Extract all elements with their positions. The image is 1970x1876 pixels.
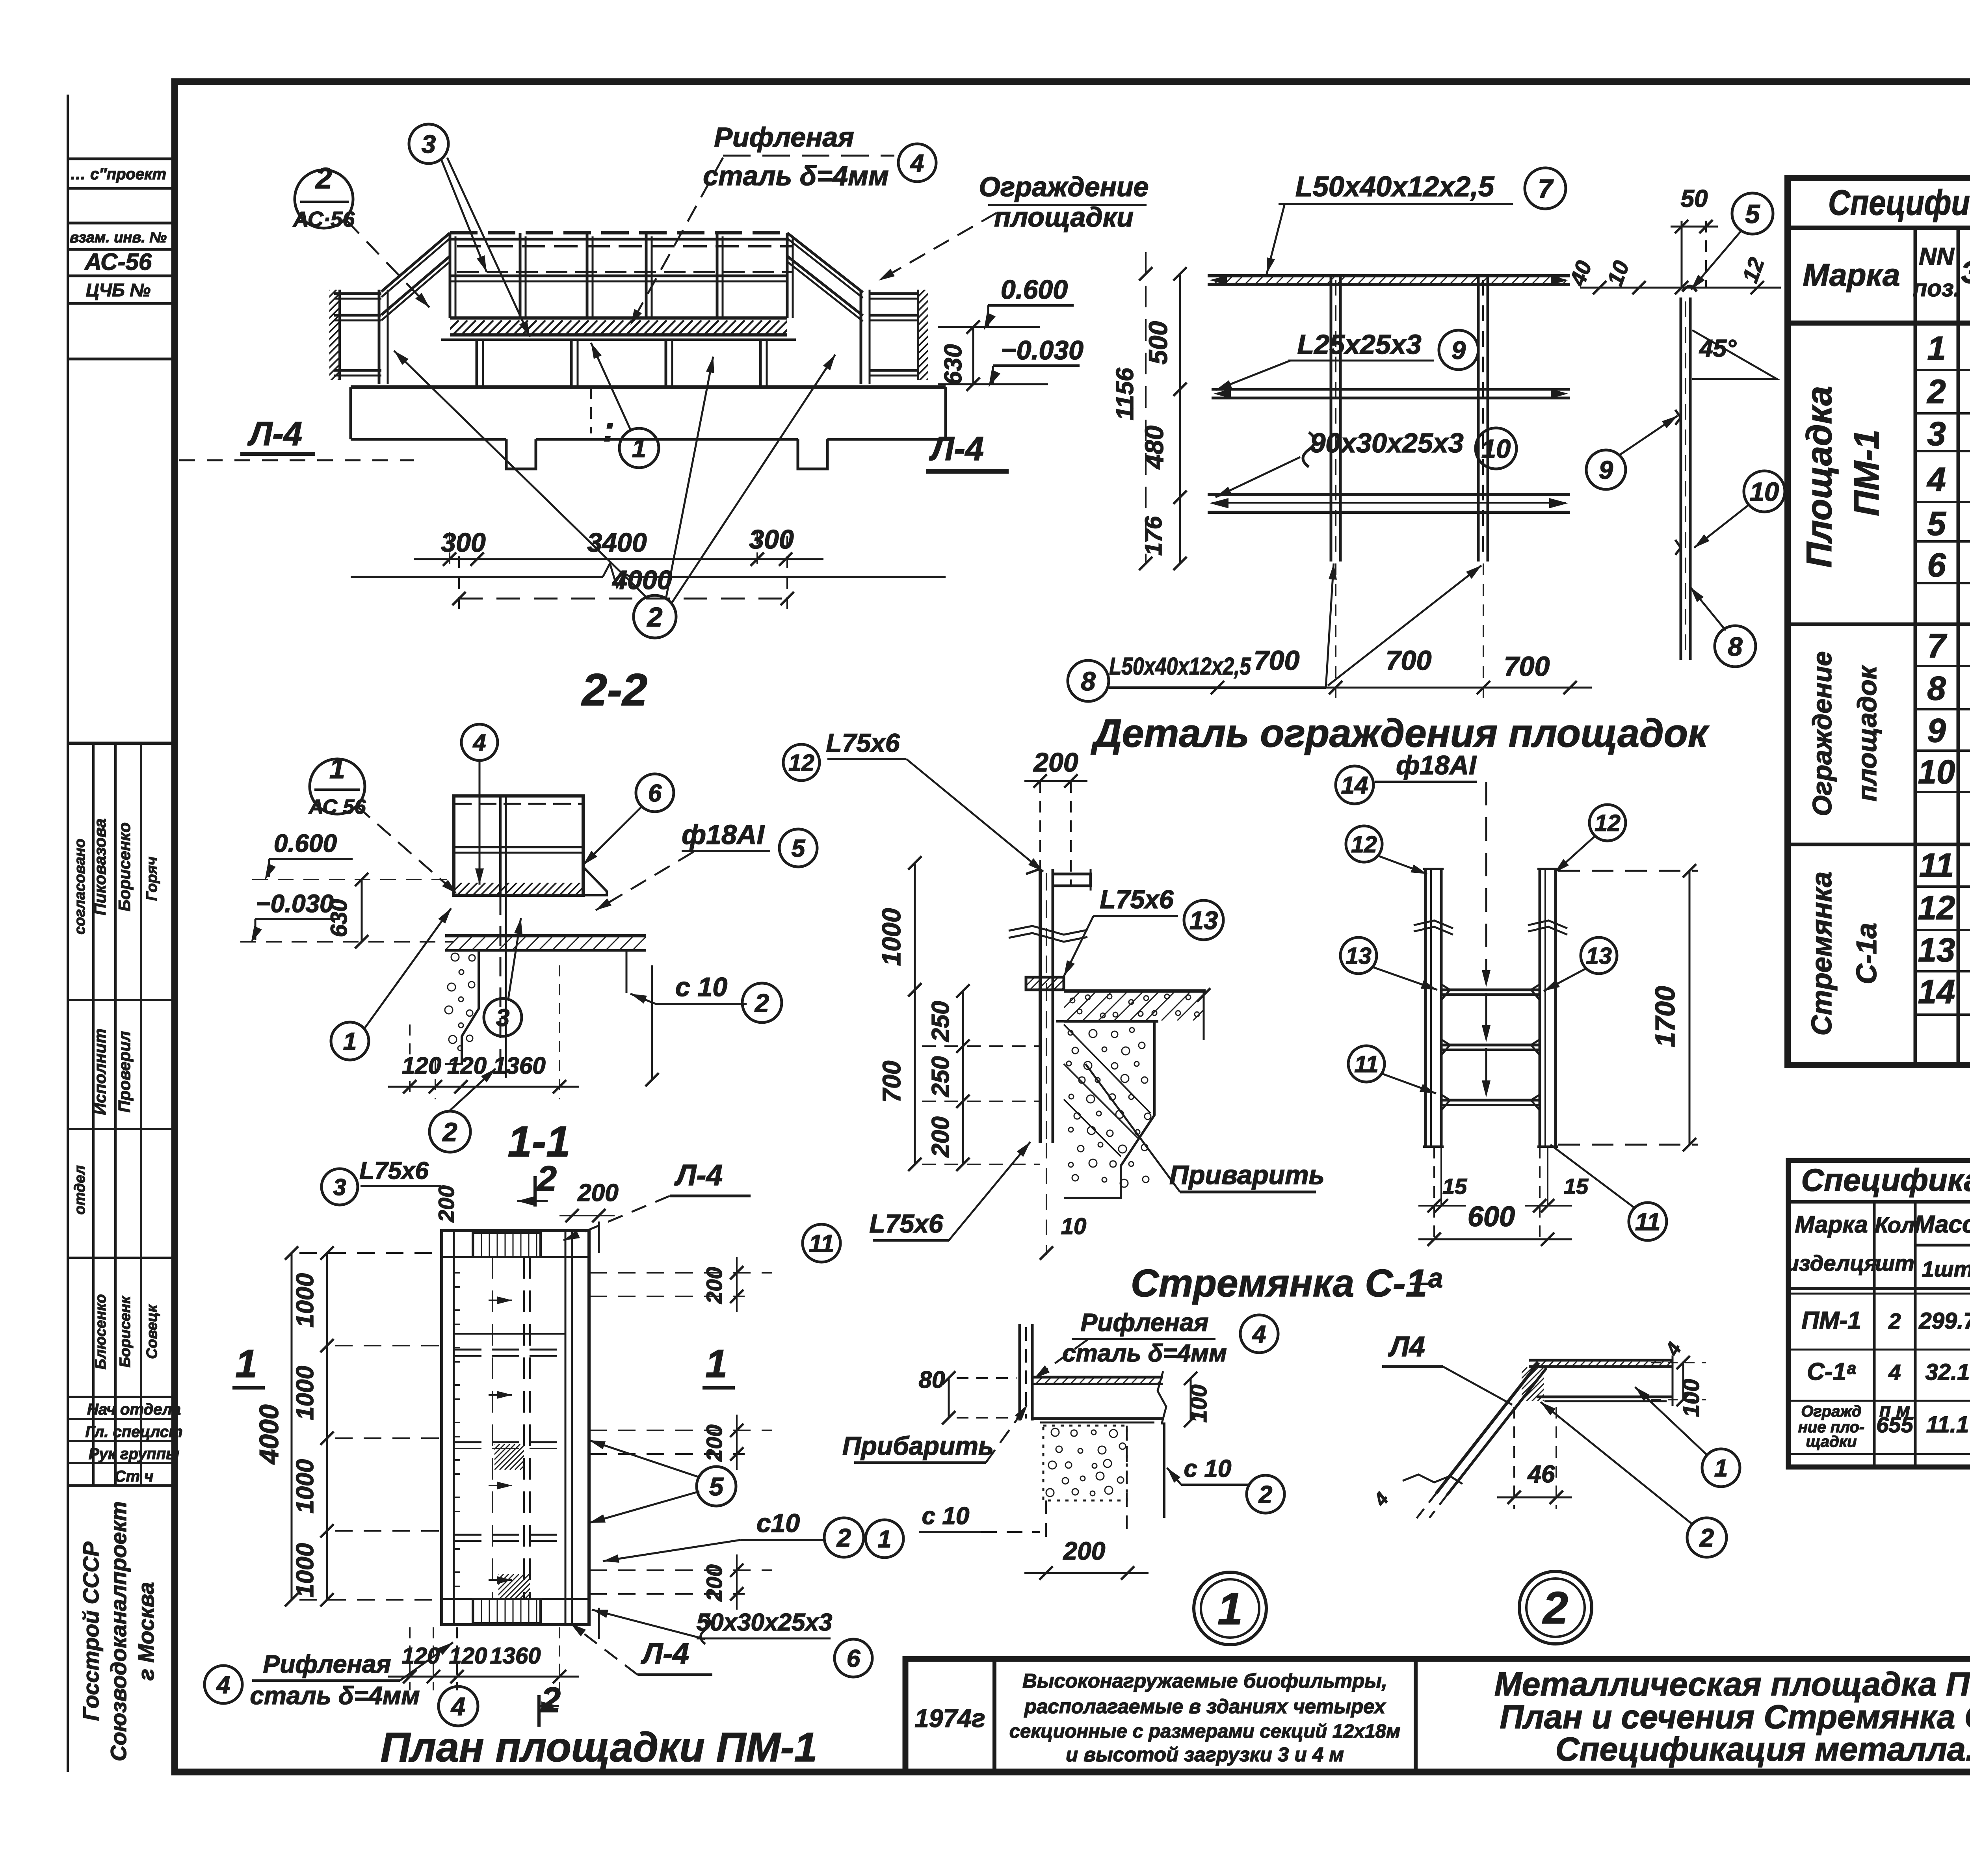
svg-text:Деталь ограждения площадок: Деталь ограждения площадок — [1090, 711, 1709, 755]
svg-text:щадки: щадки — [1806, 1433, 1857, 1450]
svg-text:0.600: 0.600 — [1001, 275, 1068, 305]
svg-text:Рифленая: Рифленая — [714, 122, 854, 152]
svg-text:176: 176 — [1140, 516, 1167, 556]
svg-text:2: 2 — [836, 1523, 851, 1552]
svg-text:АС-56: АС-56 — [84, 249, 152, 275]
svg-text:АС·56: АС·56 — [292, 207, 355, 231]
svg-text:11: 11 — [809, 1230, 834, 1257]
svg-text:600: 600 — [1468, 1201, 1515, 1233]
svg-text:п м: п м — [1879, 1400, 1910, 1421]
svg-text:200: 200 — [927, 1116, 954, 1157]
svg-text:5: 5 — [1745, 199, 1760, 229]
svg-text:4000: 4000 — [254, 1404, 284, 1465]
svg-text:L75x6: L75x6 — [359, 1157, 429, 1184]
svg-text:4000: 4000 — [611, 565, 672, 595]
svg-text:630: 630 — [326, 899, 352, 937]
svg-text:1: 1 — [1927, 330, 1946, 367]
svg-text:10: 10 — [1481, 434, 1511, 464]
svg-text:700: 700 — [1254, 645, 1300, 676]
svg-text:L75x6: L75x6 — [1100, 885, 1174, 914]
svg-text:Ограждение: Ограждение — [1807, 651, 1837, 816]
svg-text:120: 120 — [449, 1643, 487, 1669]
svg-text:с10: с10 — [756, 1508, 800, 1538]
svg-text:1360: 1360 — [490, 1643, 541, 1669]
svg-text:3400: 3400 — [587, 528, 647, 558]
svg-text:12: 12 — [1737, 254, 1769, 286]
svg-text:120: 120 — [447, 1052, 487, 1079]
svg-text:1974г: 1974г — [914, 1704, 985, 1733]
svg-text:Гл. спецлст: Гл. спецлст — [85, 1423, 182, 1441]
svg-text:90x30x25x3: 90x30x25x3 — [1310, 428, 1463, 458]
svg-text:11: 11 — [1919, 847, 1954, 884]
svg-text:Нач отдела: Нач отдела — [87, 1401, 181, 1418]
svg-text:3: 3 — [496, 1004, 509, 1032]
svg-text:32.1: 32.1 — [1925, 1359, 1970, 1385]
svg-text:6: 6 — [1927, 547, 1946, 584]
svg-text:4: 4 — [910, 150, 924, 177]
svg-text:шт: шт — [1875, 1251, 1914, 1275]
svg-text:1000: 1000 — [292, 1366, 319, 1420]
svg-text:4: 4 — [1888, 1360, 1901, 1385]
svg-text:299.7: 299.7 — [1918, 1308, 1970, 1334]
svg-text:сталь δ=4мм: сталь δ=4мм — [250, 1681, 420, 1710]
svg-text:3: 3 — [333, 1174, 346, 1200]
svg-text:Л-4: Л-4 — [674, 1158, 723, 1192]
svg-text:13: 13 — [1346, 943, 1372, 969]
svg-text:300: 300 — [441, 528, 486, 558]
svg-text:и высотой загрузки 3 и 4 м: и высотой загрузки 3 и 4 м — [1066, 1743, 1344, 1766]
svg-text:площадки: площадки — [994, 202, 1134, 232]
svg-text:поз.: поз. — [1913, 275, 1961, 301]
svg-text:200: 200 — [702, 1564, 727, 1601]
svg-text:700: 700 — [1386, 645, 1432, 676]
svg-text:8: 8 — [1927, 670, 1946, 707]
svg-text:5: 5 — [1927, 505, 1946, 543]
svg-text:С-1а: С-1а — [1851, 923, 1883, 984]
svg-text:ПМ-1: ПМ-1 — [1847, 429, 1886, 516]
svg-text:План площадки ПМ-1: План площадки ПМ-1 — [381, 1724, 817, 1770]
svg-text:Л4: Л4 — [1388, 1331, 1425, 1363]
svg-text:14: 14 — [1341, 772, 1368, 799]
svg-text:1: 1 — [1714, 1455, 1728, 1482]
svg-text:9: 9 — [1927, 712, 1946, 749]
svg-text:1: 1 — [329, 753, 345, 785]
svg-text:630: 630 — [940, 344, 967, 385]
svg-text:46: 46 — [1527, 1461, 1555, 1488]
svg-text:−0.030: −0.030 — [1001, 335, 1083, 365]
svg-text:45°: 45° — [1699, 335, 1737, 362]
svg-text:10: 10 — [1602, 257, 1634, 289]
svg-text:2: 2 — [442, 1117, 457, 1147]
svg-text:3: 3 — [1927, 415, 1946, 453]
svg-text:с 10: с 10 — [675, 972, 728, 1002]
svg-text:1шт: 1шт — [1922, 1257, 1970, 1281]
svg-text:Рифленая: Рифленая — [1081, 1308, 1209, 1337]
svg-text:1: 1 — [632, 434, 646, 463]
svg-text:2: 2 — [1699, 1523, 1714, 1552]
svg-text:2: 2 — [647, 602, 663, 632]
svg-text:располагаемые в зданиях четыре: располагаемые в зданиях четырех — [1024, 1695, 1386, 1718]
svg-text:Борисенко: Борисенко — [115, 822, 134, 911]
svg-text:Спецификация металла.: Спецификация металла. — [1556, 1731, 1970, 1768]
svg-text:4: 4 — [473, 730, 486, 756]
svg-text:Пиковазова: Пиковазова — [91, 818, 109, 915]
svg-text:L25x25x3: L25x25x3 — [1297, 329, 1421, 360]
svg-text:1: 1 — [1217, 1584, 1243, 1634]
svg-text:200: 200 — [434, 1185, 459, 1222]
svg-text:Эскиз или сечение: Эскиз или сечение — [1961, 255, 1970, 290]
svg-text:6: 6 — [648, 780, 662, 807]
svg-text:4: 4 — [1252, 1321, 1266, 1348]
svg-text:1700: 1700 — [1650, 986, 1680, 1047]
svg-text:2: 2 — [540, 1681, 561, 1720]
svg-text:ф18АI: ф18АI — [1396, 750, 1477, 780]
svg-text:1: 1 — [878, 1526, 891, 1553]
svg-text:1000: 1000 — [877, 908, 906, 966]
svg-text:1156: 1156 — [1111, 368, 1139, 420]
svg-text:Ст ч: Ст ч — [115, 1468, 154, 1485]
svg-text:2: 2 — [1258, 1481, 1272, 1508]
svg-text:Исполнит: Исполнит — [91, 1028, 109, 1115]
svg-text:500: 500 — [1143, 321, 1173, 364]
svg-text:50: 50 — [1681, 185, 1708, 212]
svg-text:Госстрой СССР: Госстрой СССР — [78, 1541, 103, 1721]
svg-text:согласовано: согласовано — [72, 839, 88, 935]
svg-text:15: 15 — [1442, 1174, 1467, 1199]
svg-text:7: 7 — [1538, 174, 1554, 204]
svg-text:1-1: 1-1 — [508, 1117, 571, 1166]
svg-text:Л-4: Л-4 — [641, 1637, 689, 1670]
svg-text:2: 2 — [1926, 373, 1946, 411]
svg-text:12: 12 — [1595, 810, 1621, 836]
svg-text:отдел: отдел — [72, 1165, 88, 1214]
svg-text:Прибарить: Прибарить — [842, 1431, 994, 1460]
svg-text:Марка: Марка — [1795, 1211, 1868, 1238]
svg-text:11.1: 11.1 — [1926, 1412, 1969, 1437]
svg-text:50x30x25x3: 50x30x25x3 — [697, 1609, 833, 1636]
svg-text:4: 4 — [450, 1692, 465, 1721]
svg-text:1: 1 — [705, 1342, 727, 1386]
svg-text:5: 5 — [709, 1472, 724, 1501]
svg-text:11: 11 — [1354, 1051, 1378, 1077]
svg-text:8: 8 — [1081, 667, 1096, 696]
svg-text:Ограждение: Ограждение — [979, 171, 1149, 202]
svg-text:5: 5 — [792, 835, 806, 862]
svg-text:13: 13 — [1189, 906, 1218, 935]
svg-text:Рук группы: Рук группы — [89, 1445, 179, 1463]
svg-text:15: 15 — [1564, 1174, 1589, 1199]
svg-text:L75x6: L75x6 — [826, 728, 900, 757]
svg-text:10: 10 — [1750, 477, 1779, 507]
svg-text:1: 1 — [343, 1028, 357, 1055]
svg-text:Л-4: Л-4 — [929, 430, 984, 468]
svg-text:2: 2 — [536, 1159, 557, 1199]
svg-text:Рифленая: Рифленая — [263, 1650, 391, 1678]
svg-text:8: 8 — [1728, 632, 1743, 662]
svg-text:200: 200 — [1063, 1537, 1106, 1565]
svg-text:План и сечения Стремянка С-1: План и сечения Стремянка С-1ᵃ — [1500, 1698, 1970, 1735]
svg-text:Стремянка С-1ᵃ: Стремянка С-1ᵃ — [1131, 1261, 1442, 1305]
svg-text:Спецификация стали: Спецификация стали — [1801, 1162, 1970, 1197]
svg-text:Союзводоканалпроект: Союзводоканалпроект — [106, 1501, 131, 1761]
svg-text:Металлическая площадка ПМ-1.: Металлическая площадка ПМ-1. — [1494, 1666, 1970, 1703]
svg-text:10: 10 — [1061, 1214, 1087, 1239]
svg-text:Проверил: Проверил — [115, 1031, 134, 1113]
svg-text:г Москва: г Москва — [134, 1582, 158, 1681]
svg-text:Масса в кг: Масса в кг — [1914, 1211, 1970, 1238]
svg-text:L75x6: L75x6 — [869, 1209, 943, 1238]
svg-text:Высоконагружаемые биофильтры,: Высоконагружаемые биофильтры, — [1022, 1670, 1387, 1692]
svg-text:9: 9 — [1599, 456, 1613, 484]
svg-text:Борисенк: Борисенк — [117, 1296, 134, 1368]
svg-text:200: 200 — [702, 1424, 727, 1461]
svg-text:с 10: с 10 — [1184, 1455, 1232, 1482]
svg-text:Стремянка: Стремянка — [1806, 872, 1838, 1036]
svg-text:2: 2 — [315, 162, 332, 195]
svg-text:4: 4 — [216, 1671, 230, 1699]
svg-text:1000: 1000 — [292, 1273, 319, 1328]
svg-text:14: 14 — [1918, 973, 1955, 1011]
svg-text:2: 2 — [754, 989, 769, 1017]
svg-text:С-1ᵃ: С-1ᵃ — [1807, 1358, 1856, 1385]
svg-text:Площадка: Площадка — [1800, 386, 1839, 567]
svg-text:Марка: Марка — [1803, 257, 1900, 292]
svg-text:480: 480 — [1139, 426, 1169, 470]
svg-text:13: 13 — [1918, 931, 1955, 969]
svg-text:площадок: площадок — [1852, 665, 1882, 801]
svg-text:3: 3 — [422, 130, 436, 158]
svg-text:ф18АI: ф18АI — [682, 819, 765, 850]
svg-text:700: 700 — [1504, 651, 1550, 682]
svg-text:2: 2 — [1542, 1583, 1568, 1633]
svg-text:6: 6 — [847, 1645, 860, 1672]
svg-text:Совецк: Совецк — [144, 1304, 160, 1359]
svg-text:Кол: Кол — [1875, 1212, 1914, 1237]
svg-text:1: 1 — [235, 1342, 257, 1386]
svg-text:Приварить: Приварить — [1169, 1160, 1325, 1190]
svg-text:11: 11 — [1635, 1209, 1660, 1236]
svg-text:сталь δ=4мм: сталь δ=4мм — [703, 160, 889, 191]
svg-text:10: 10 — [1918, 753, 1955, 791]
svg-text:NN: NN — [1919, 243, 1955, 270]
svg-text:1000: 1000 — [292, 1543, 319, 1597]
svg-text:L50x40x12x2,5: L50x40x12x2,5 — [1109, 653, 1251, 680]
svg-text:7: 7 — [1927, 627, 1947, 665]
svg-text:ЦЧБ №: ЦЧБ № — [86, 280, 151, 300]
svg-text:200: 200 — [1033, 747, 1078, 777]
svg-text:200: 200 — [577, 1179, 618, 1207]
svg-text:2-2: 2-2 — [581, 665, 647, 715]
svg-text:−0.030: −0.030 — [256, 889, 334, 918]
svg-text:12: 12 — [1351, 831, 1377, 857]
svg-text::: : — [603, 410, 615, 449]
svg-text:9: 9 — [1451, 336, 1466, 364]
svg-text:12: 12 — [788, 750, 814, 776]
svg-text:1000: 1000 — [292, 1459, 319, 1513]
svg-text:изделця: изделця — [1786, 1251, 1877, 1275]
svg-text:ПМ-1: ПМ-1 — [1801, 1307, 1861, 1334]
svg-text:сталь δ=4мм: сталь δ=4мм — [1062, 1340, 1227, 1367]
svg-text:… с″проект: … с″проект — [70, 165, 166, 183]
svg-text:с 10: с 10 — [922, 1502, 970, 1530]
svg-text:12: 12 — [1918, 889, 1955, 927]
svg-text:700: 700 — [877, 1061, 906, 1103]
svg-text:13: 13 — [1586, 943, 1612, 969]
svg-text:2: 2 — [1888, 1309, 1901, 1333]
svg-text:Горяч: Горяч — [144, 857, 160, 901]
svg-text:200: 200 — [702, 1267, 727, 1304]
svg-text:секционные с размерами секций: секционные с размерами секций 12х18м — [1009, 1721, 1401, 1742]
svg-text:Спецификация стали на одно: Спецификация стали на одно изделие — [1828, 183, 1970, 223]
svg-text:0.600: 0.600 — [274, 829, 337, 857]
svg-text:80: 80 — [919, 1367, 945, 1393]
svg-text:250: 250 — [927, 1001, 954, 1042]
svg-text:1360: 1360 — [493, 1052, 545, 1079]
svg-text:4: 4 — [1926, 461, 1946, 498]
svg-text:L50x40x12x2,5: L50x40x12x2,5 — [1295, 171, 1494, 203]
svg-text:250: 250 — [927, 1056, 954, 1097]
svg-text:Огражд: Огражд — [1801, 1403, 1861, 1420]
svg-text:Блюсенко: Блюсенко — [93, 1294, 109, 1369]
svg-text:4: 4 — [1370, 1489, 1393, 1510]
svg-text:взам. инв. №: взам. инв. № — [70, 229, 167, 246]
svg-text:Л-4: Л-4 — [247, 415, 302, 453]
